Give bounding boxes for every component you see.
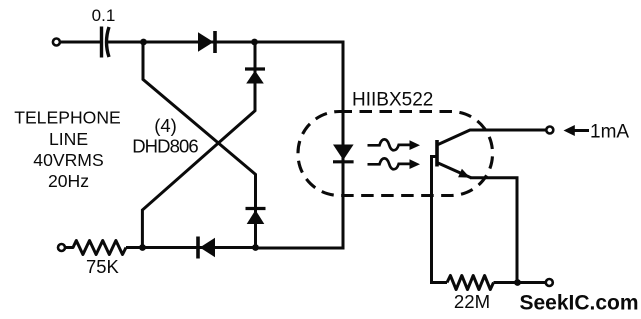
svg-text:SeekIC.com: SeekIC.com (520, 291, 639, 314)
svg-text:DHD806: DHD806 (132, 136, 198, 157)
terminal T3 (collector output) (546, 127, 553, 134)
svg-text:40VRMS: 40VRMS (33, 150, 103, 170)
diode D2 (right column, pointing up) (245, 69, 265, 84)
light arrow 1 (368, 139, 421, 150)
svg-text:20Hz: 20Hz (48, 171, 89, 191)
transistor Q1 collector (438, 130, 547, 145)
wire: top rail (capacitor to right corner, down to bottom rail corner) (107, 42, 343, 248)
optocoupler U1 dashed outline (298, 112, 493, 196)
label HIIBX522 (352, 90, 433, 111)
transistor Q1 base bar (435, 140, 439, 167)
wire: bottom rail R1 to corner (126, 246, 256, 249)
LED D5 (inside U1, pointing down) (333, 145, 354, 162)
capacitor C1 0.1 (102, 27, 110, 58)
junction node C (bottom left) (139, 244, 146, 251)
label TELEPHONE LINE 40VRMS 20Hz (14, 108, 121, 191)
value label 75K (86, 256, 119, 277)
svg-text:TELEPHONE: TELEPHONE (14, 108, 121, 128)
resistor R1 75K (66, 241, 126, 255)
current arrow 1mA (564, 122, 630, 143)
terminal T4 (emitter output) (546, 279, 553, 286)
diode D3 (bottom, pointing left) (198, 237, 215, 259)
svg-text:LINE: LINE (49, 129, 88, 149)
wire: base lead down and bottom sub-rail (432, 157, 448, 283)
junction node B (top right) (251, 39, 258, 46)
diode D4 (bottom column, pointing up) (246, 209, 266, 225)
wire: node A down and cross to bottom-right (143, 42, 256, 248)
terminal T2 (bottom left input) (58, 244, 65, 251)
diode D1 (top, pointing right) (198, 31, 215, 53)
svg-text:1mA: 1mA (590, 122, 629, 143)
svg-text:0.1: 0.1 (92, 6, 116, 25)
wire: R2 to terminal T4 (494, 281, 546, 284)
junction node A (top left) (140, 39, 147, 46)
wire: node B down through D2 and cross to bottom-left (142, 42, 255, 248)
value label 0.1 (92, 6, 116, 25)
wire: emitter to bottom junction (470, 178, 517, 283)
svg-text:75K: 75K (86, 256, 119, 277)
transistor Q1 emitter with arrow (438, 163, 472, 178)
junction node D (bottom right) (252, 244, 259, 251)
light arrow 2 (368, 158, 421, 169)
label DHD806 (132, 136, 198, 157)
junction node E (bottom right) (514, 279, 521, 286)
resistor R2 22M (447, 276, 494, 290)
svg-text:22M: 22M (454, 291, 490, 312)
value label 22M (454, 291, 490, 312)
label (4) (154, 115, 177, 136)
watermark SeekIC.com (520, 291, 639, 314)
svg-text:HIIBX522: HIIBX522 (352, 90, 433, 111)
wire: T1 to capacitor (61, 41, 101, 44)
terminal T1 (top left input) (53, 39, 60, 46)
svg-text:(4): (4) (154, 115, 177, 136)
